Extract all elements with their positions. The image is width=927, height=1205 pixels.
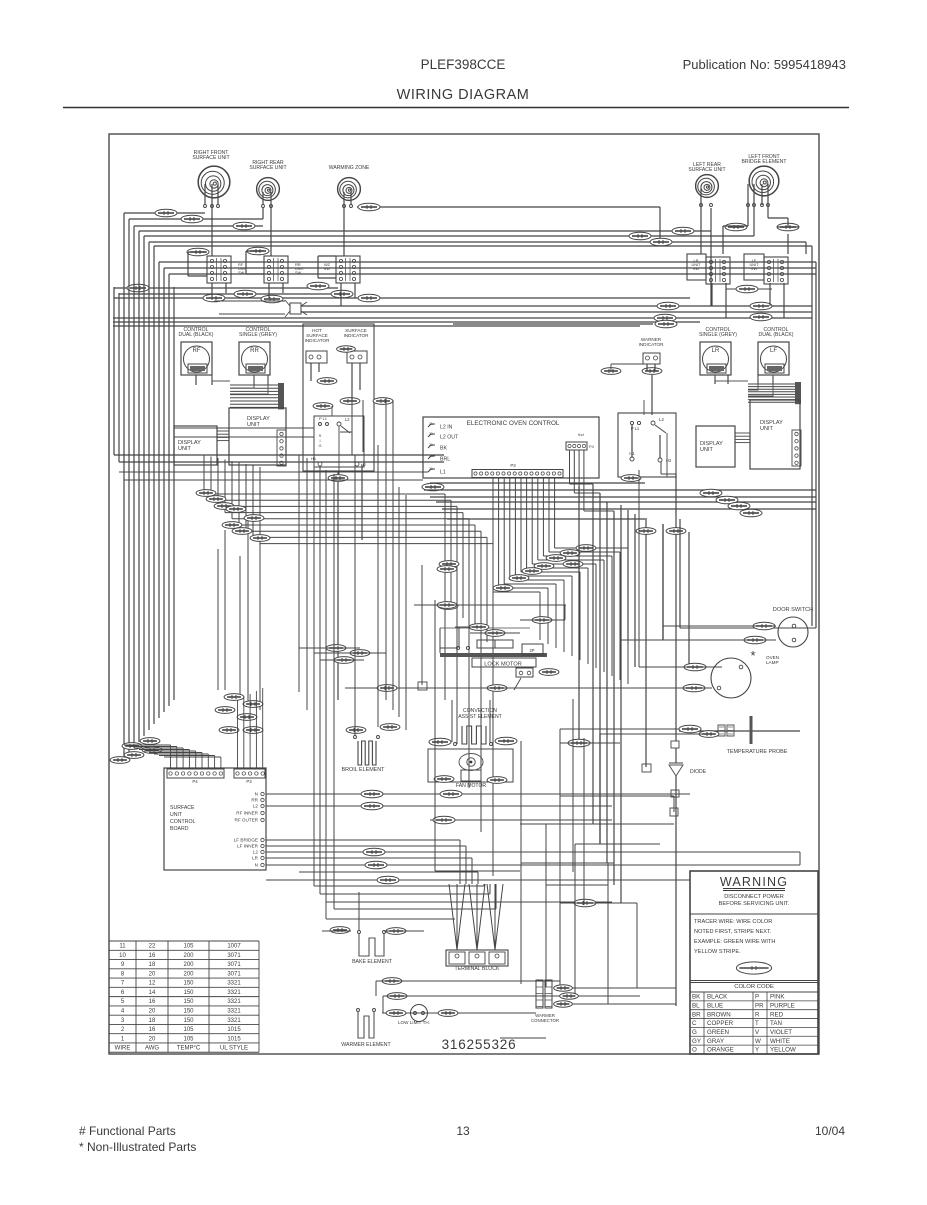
svg-text:SURFACE UNIT: SURFACE UNIT [192, 155, 229, 161]
svg-text:SW: SW [324, 266, 331, 271]
svg-text:R: R [755, 1011, 760, 1018]
svg-text:150: 150 [183, 990, 194, 996]
svg-text:13: 13 [456, 1124, 470, 1138]
svg-text:18: 18 [149, 1018, 156, 1024]
svg-text:SURFACE UNIT: SURFACE UNIT [249, 165, 286, 171]
svg-text:thd: thd [578, 432, 583, 437]
svg-text:L2: L2 [253, 804, 259, 809]
svg-text:150: 150 [183, 999, 194, 1005]
svg-text:UNIT: UNIT [178, 446, 191, 452]
svg-text:TEMPERATURE PROBE: TEMPERATURE PROBE [727, 749, 788, 755]
svg-text:WARMING ZONE: WARMING ZONE [329, 165, 370, 171]
svg-text:G: G [692, 1029, 697, 1036]
svg-text:YELLOW STRIPE.: YELLOW STRIPE. [694, 949, 741, 955]
svg-text:# Functional Parts: # Functional Parts [79, 1124, 176, 1138]
svg-text:14: 14 [149, 990, 156, 996]
svg-text:YELLOW: YELLOW [770, 1047, 796, 1054]
svg-text:COLOR CODE: COLOR CODE [734, 984, 774, 990]
svg-text:L2: L2 [253, 850, 259, 855]
svg-text:LOCK MOTOR: LOCK MOTOR [484, 662, 522, 668]
svg-text:*: * [750, 648, 755, 663]
svg-text:RF: RF [193, 348, 201, 354]
svg-text:150: 150 [183, 1008, 194, 1014]
svg-text:LF BRIDGE: LF BRIDGE [234, 838, 258, 843]
svg-text:21: 21 [429, 467, 433, 471]
svg-text:PURPLE: PURPLE [770, 1002, 795, 1009]
svg-text:L2: L2 [345, 417, 350, 422]
svg-text:10: 10 [119, 953, 126, 959]
svg-text:10/04: 10/04 [815, 1124, 845, 1138]
svg-text:P4: P4 [589, 444, 595, 449]
svg-text:LAMP: LAMP [766, 660, 779, 665]
svg-text:UNIT: UNIT [170, 812, 183, 818]
svg-text:SURFACE UNIT: SURFACE UNIT [688, 167, 725, 173]
svg-text:T: T [755, 1020, 759, 1027]
svg-text:3071: 3071 [227, 971, 241, 977]
svg-text:SURFACE: SURFACE [170, 805, 195, 811]
svg-text:UL STYLE: UL STYLE [220, 1046, 248, 1052]
svg-text:DIODE: DIODE [690, 769, 707, 775]
svg-text:G: G [318, 443, 321, 448]
svg-text:BEFORE SERVICING UNIT.: BEFORE SERVICING UNIT. [719, 901, 790, 907]
svg-text:BK: BK [440, 446, 447, 452]
svg-text:SW: SW [751, 266, 758, 271]
svg-text:RR: RR [250, 348, 259, 354]
svg-text:P3: P3 [246, 779, 252, 784]
svg-text:NOTED FIRST, STRIPE NEXT.: NOTED FIRST, STRIPE NEXT. [694, 929, 772, 935]
svg-text:INDICATOR: INDICATOR [344, 333, 370, 338]
svg-text:1015: 1015 [227, 1027, 241, 1033]
svg-text:N: N [255, 863, 258, 868]
svg-text:21: 21 [429, 443, 433, 447]
svg-text:BROWN: BROWN [707, 1011, 731, 1018]
svg-text:LR: LR [712, 348, 720, 354]
svg-text:Y: Y [755, 1047, 759, 1054]
svg-text:20: 20 [149, 1008, 156, 1014]
svg-text:CONNECTOR: CONNECTOR [531, 1018, 559, 1023]
svg-text:3321: 3321 [227, 999, 241, 1005]
svg-text:Publication No: 5995418943: Publication No: 5995418943 [683, 57, 846, 72]
svg-text:16: 16 [149, 953, 156, 959]
svg-text:ORANGE: ORANGE [707, 1047, 734, 1054]
svg-text:DOOR SWITCH: DOOR SWITCH [773, 607, 813, 613]
svg-text:UNIT: UNIT [760, 426, 773, 432]
svg-text:PR: PR [755, 1002, 764, 1009]
svg-text:105: 105 [183, 1027, 194, 1033]
svg-text:WHITE: WHITE [770, 1038, 790, 1045]
svg-text:16: 16 [149, 999, 156, 1005]
svg-text:VIOLET: VIOLET [770, 1029, 792, 1036]
svg-text:150: 150 [183, 981, 194, 987]
svg-text:BK: BK [692, 994, 701, 1001]
svg-text:SW: SW [295, 270, 302, 275]
svg-text:L2: L2 [659, 417, 664, 422]
svg-text:WARMER ELEMENT: WARMER ELEMENT [341, 1042, 391, 1048]
svg-text:BLUE: BLUE [707, 1002, 723, 1009]
svg-text:1007: 1007 [227, 944, 241, 950]
svg-text:ASSIST ELEMENT: ASSIST ELEMENT [458, 714, 502, 720]
svg-text:FAN MOTOR: FAN MOTOR [456, 783, 487, 789]
svg-text:GREEN: GREEN [707, 1029, 729, 1036]
svg-text:WIRE: WIRE [115, 1046, 131, 1052]
svg-text:C: C [692, 1020, 697, 1027]
svg-text:RR: RR [251, 798, 258, 803]
svg-text:CONTROL: CONTROL [170, 819, 195, 825]
svg-text:21: 21 [429, 422, 433, 426]
svg-text:LF: LF [770, 348, 777, 354]
svg-text:* Non-Illustrated Parts: * Non-Illustrated Parts [79, 1140, 196, 1154]
svg-text:BOARD: BOARD [170, 826, 189, 832]
svg-text:3071: 3071 [227, 953, 241, 959]
svg-text:105: 105 [183, 1036, 194, 1042]
svg-text:200: 200 [183, 962, 194, 968]
svg-text:ELECTRONIC OVEN CONTROL: ELECTRONIC OVEN CONTROL [467, 420, 560, 427]
svg-text:LOW LIMIT TH.: LOW LIMIT TH. [398, 1020, 430, 1025]
svg-text:UNIT: UNIT [247, 422, 260, 428]
svg-text:UNIT: UNIT [700, 447, 713, 453]
svg-text:W: W [755, 1038, 761, 1045]
svg-text:L2 OUT: L2 OUT [440, 435, 459, 441]
svg-text:12: 12 [149, 981, 156, 987]
svg-text:3321: 3321 [227, 990, 241, 996]
svg-text:SW: SW [238, 270, 245, 275]
svg-text:20: 20 [149, 1036, 156, 1042]
svg-text:RF INNER: RF INNER [236, 811, 258, 816]
svg-text:P4: P4 [192, 779, 198, 784]
svg-text:BRIDGE ELEMENT: BRIDGE ELEMENT [741, 159, 786, 165]
svg-text:SINGLE (GREY): SINGLE (GREY) [699, 332, 737, 338]
svg-text:2P: 2P [529, 648, 534, 653]
svg-text:3071: 3071 [227, 962, 241, 968]
svg-text:TAN: TAN [770, 1020, 782, 1027]
svg-text:RF OUTER: RF OUTER [235, 818, 259, 823]
svg-text:11: 11 [119, 944, 126, 950]
svg-text:BAKE ELEMENT: BAKE ELEMENT [352, 959, 393, 965]
svg-text:TEMP°C: TEMP°C [177, 1046, 201, 1052]
svg-text:INDICATOR: INDICATOR [305, 338, 331, 343]
svg-text:WARNING: WARNING [720, 875, 788, 889]
svg-text:PLEF398CCE: PLEF398CCE [421, 57, 506, 72]
svg-text:EXAMPLE: GREEN WIRE WITH: EXAMPLE: GREEN WIRE WITH [694, 939, 775, 945]
svg-text:20: 20 [149, 971, 156, 977]
svg-text:DUAL (BLACK): DUAL (BLACK) [179, 332, 214, 338]
svg-text:SW: SW [693, 266, 700, 271]
svg-text:BR: BR [692, 1011, 701, 1018]
svg-text:SINGLE (GREY): SINGLE (GREY) [239, 332, 277, 338]
svg-text:3321: 3321 [227, 1008, 241, 1014]
svg-text:16: 16 [149, 1027, 156, 1033]
svg-text:316255326: 316255326 [442, 1037, 517, 1052]
svg-text:22: 22 [149, 944, 156, 950]
svg-text:P: P [755, 994, 759, 1001]
svg-text:WIRING DIAGRAM: WIRING DIAGRAM [397, 87, 530, 103]
svg-text:105: 105 [183, 944, 194, 950]
svg-text:O: O [692, 1047, 697, 1054]
svg-text:GRAY: GRAY [707, 1038, 724, 1045]
svg-text:RED: RED [770, 1011, 784, 1018]
svg-text:P3: P3 [510, 463, 516, 468]
svg-text:L2 IN: L2 IN [440, 425, 453, 431]
svg-text:N: N [255, 792, 258, 797]
svg-text:BLACK: BLACK [707, 994, 728, 1001]
svg-text:LF INNER: LF INNER [237, 844, 259, 849]
svg-text:DISCONNECT POWER: DISCONNECT POWER [724, 894, 784, 900]
svg-text:18: 18 [149, 962, 156, 968]
svg-text:P L1: P L1 [319, 416, 327, 421]
svg-text:GY: GY [692, 1038, 701, 1045]
svg-text:PINK: PINK [770, 994, 785, 1001]
svg-text:DUAL (BLACK): DUAL (BLACK) [759, 332, 794, 338]
svg-text:1015: 1015 [227, 1036, 241, 1042]
svg-text:H1: H1 [311, 456, 316, 461]
svg-text:BL: BL [692, 1002, 700, 1009]
svg-text:200: 200 [183, 971, 194, 977]
svg-text:200: 200 [183, 953, 194, 959]
svg-text:AWG: AWG [145, 1046, 159, 1052]
svg-text:L1: L1 [440, 470, 446, 476]
svg-text:150: 150 [183, 1018, 194, 1024]
svg-text:TERMINAL BLOCK: TERMINAL BLOCK [454, 966, 500, 972]
svg-text:3321: 3321 [227, 1018, 241, 1024]
svg-text:3321: 3321 [227, 981, 241, 987]
svg-text:INDICATOR: INDICATOR [639, 342, 665, 347]
svg-text:TRACER WIRE: WIRE COLOR: TRACER WIRE: WIRE COLOR [694, 919, 772, 925]
svg-text:BROIL ELEMENT: BROIL ELEMENT [342, 767, 386, 773]
svg-text:21: 21 [429, 432, 433, 436]
svg-text:LR: LR [252, 856, 259, 861]
svg-text:COPPER: COPPER [707, 1020, 734, 1027]
